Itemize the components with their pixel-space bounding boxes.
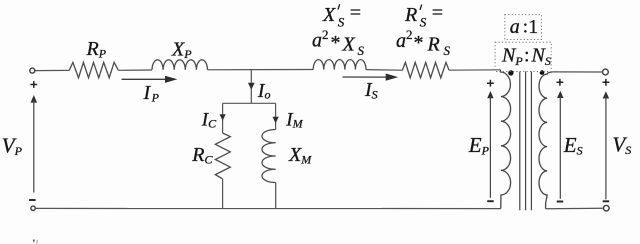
resistor RC <box>215 133 230 179</box>
svg-text::: : <box>524 45 530 67</box>
artifact mark bottom-left <box>33 240 38 244</box>
svg-text:*: * <box>331 32 341 54</box>
svg-text:S: S <box>420 15 427 30</box>
polarity dot primary <box>508 70 513 75</box>
wire RP to XP <box>118 69 152 71</box>
svg-text:2: 2 <box>406 27 413 42</box>
label a2*XS <box>312 27 365 58</box>
voltage arrow VP <box>29 81 37 200</box>
svg-text:a: a <box>510 16 520 38</box>
svg-text:1: 1 <box>528 16 538 38</box>
dotted box a:1 <box>505 15 542 40</box>
wire XM branch top <box>275 103 277 129</box>
svg-text:S: S <box>444 43 451 58</box>
wire XP to X'S <box>208 69 314 71</box>
svg-text:RP: RP <box>86 38 107 61</box>
svg-text:VP: VP <box>2 133 23 158</box>
label a2*RS <box>396 27 451 58</box>
svg-text:NP: NP <box>501 45 523 69</box>
inductor XP <box>152 60 208 70</box>
wire R'S to transformer <box>449 69 500 71</box>
svg-text:S: S <box>338 15 345 30</box>
svg-text:2: 2 <box>322 27 329 42</box>
svg-text:R: R <box>427 34 440 56</box>
svg-text:X: X <box>342 33 356 55</box>
current arrow IP <box>122 76 178 83</box>
resistor RP <box>69 62 118 77</box>
terminal top-right <box>603 69 609 75</box>
svg-text:=: = <box>431 2 445 24</box>
wire RC branch bottom <box>222 179 224 209</box>
label X'S equation <box>322 2 362 29</box>
svg-text:ES: ES <box>563 133 583 158</box>
label a:1 <box>510 16 538 38</box>
wire top-left lead <box>35 69 69 71</box>
svg-text:R: R <box>404 4 417 26</box>
current arrow IM <box>273 117 279 123</box>
transformer primary winding EP <box>500 70 510 209</box>
node shunt junction wire <box>250 70 252 104</box>
svg-text:IP: IP <box>143 82 160 105</box>
wire RC branch top <box>222 103 224 133</box>
voltage arrow ES <box>557 79 564 202</box>
terminal bottom-right <box>604 205 610 211</box>
svg-text:a: a <box>312 30 322 52</box>
wire shunt split bar <box>223 102 276 104</box>
wire bottom left <box>35 207 501 209</box>
current arrow IC <box>220 114 226 120</box>
voltage arrow EP <box>487 80 494 201</box>
dotted box NP:NS <box>495 42 551 71</box>
wire transformer to terminal top-right <box>553 71 603 73</box>
wire bottom right <box>546 207 604 209</box>
polarity dot secondary <box>540 70 545 75</box>
current arrow IS <box>343 74 399 81</box>
svg-text:XP: XP <box>171 38 192 61</box>
wire X'S to R'S <box>366 69 402 72</box>
svg-text:X: X <box>322 4 336 26</box>
voltage arrow VS <box>603 79 610 201</box>
svg-text:VS: VS <box>612 133 631 158</box>
svg-text:S: S <box>358 43 365 58</box>
svg-text:IS: IS <box>364 79 378 102</box>
svg-text:XM: XM <box>288 144 312 167</box>
transformer secondary winding ES <box>539 72 553 209</box>
wire XM branch bottom <box>275 183 277 209</box>
inductor XM <box>262 129 276 182</box>
transformer core <box>520 72 532 211</box>
inductor X'S <box>313 60 366 70</box>
terminal top-left <box>30 68 35 73</box>
label NP:NS <box>501 45 551 69</box>
terminal bottom-left <box>31 206 35 210</box>
svg-text:IM: IM <box>285 109 303 130</box>
svg-text:NS: NS <box>531 45 551 69</box>
label R'S equation <box>404 2 444 29</box>
svg-text:=: = <box>349 2 363 24</box>
svg-text:IC: IC <box>201 109 217 130</box>
svg-text:RC: RC <box>191 144 213 167</box>
svg-text:EP: EP <box>468 133 490 158</box>
svg-text:*: * <box>414 32 424 54</box>
current arrow Io <box>248 83 255 90</box>
svg-text:Io: Io <box>257 80 271 102</box>
resistor R'S <box>402 62 449 77</box>
svg-text:a: a <box>396 30 406 52</box>
